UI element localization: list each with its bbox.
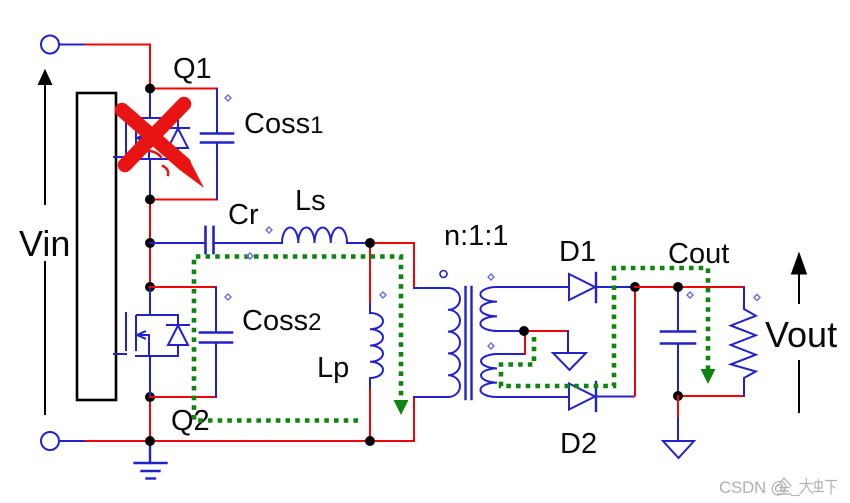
svg-text:Coss2: Coss2: [242, 305, 321, 337]
wire D1 node to Cout (red): [635, 286, 678, 288]
svg-text:D1: D1: [559, 236, 596, 268]
capacitor Cr: [206, 227, 214, 253]
svg-text:Coss1: Coss1: [244, 108, 323, 140]
transformer core: [466, 287, 472, 399]
svg-text:Q2: Q2: [171, 405, 210, 437]
current loop secondary (green dotted): [501, 268, 708, 386]
wire bottom-left blue stub: [59, 440, 86, 442]
wire Ls to node: [347, 242, 370, 244]
svg-text:D2: D2: [560, 428, 597, 460]
node (635,287): [630, 282, 640, 292]
node (150,441): [145, 436, 155, 446]
Vin arrow: [38, 70, 51, 414]
node (678,396): [673, 391, 683, 401]
resistor R load (Vout): [731, 287, 756, 396]
wire Coss1 bottom (red): [150, 199, 217, 201]
svg-text:Q1: Q1: [173, 53, 212, 85]
node (150,397): [145, 392, 155, 402]
node (370,441): [365, 436, 375, 446]
svg-text:Cr: Cr: [228, 199, 259, 231]
node (524,331): [519, 326, 529, 336]
transistor Q2 (MOSFET): [114, 287, 189, 397]
transformer phase dot primary: [440, 271, 447, 278]
wire D1 node down to D2 (red): [634, 287, 635, 397]
marker diamond Coss2: [225, 294, 231, 300]
terminal top-left: [41, 36, 59, 54]
capacitor Cout: [661, 287, 695, 396]
node (150,197): [145, 195, 155, 205]
transistor Q1 (MOSFET): [114, 89, 189, 200]
marker diamond sec1: [488, 274, 494, 280]
svg-text:Vin: Vin: [19, 223, 70, 264]
wire Lp red top: [369, 243, 371, 302]
wire Lp red bottom: [369, 390, 371, 441]
inductor Ls: [282, 227, 347, 243]
current loop primary (green dotted): [194, 257, 401, 421]
transformer secondary winding 2: [480, 354, 569, 397]
ground (input, bottom left): [135, 444, 167, 479]
wire Coss2 top (red): [150, 286, 216, 288]
node (150,243): [145, 238, 155, 248]
wire Cout to Vout bottom (red): [678, 395, 744, 397]
marker diamond Lp: [380, 292, 386, 298]
marker diamond sec2: [488, 343, 494, 349]
wire transformer primary bottom (red): [370, 397, 414, 441]
transformer secondary winding 1: [480, 287, 569, 331]
wire Cout to Vout top (red): [678, 286, 744, 288]
current loop secondary arrowhead: [701, 369, 716, 384]
wire node to transformer primary (red): [370, 243, 414, 288]
svg-text:Vout: Vout: [765, 314, 837, 355]
wire node to Cr: [150, 242, 205, 244]
ground (secondary center tap): [553, 331, 586, 370]
wire Coss1 top (red): [150, 88, 217, 90]
wire bottom rail: [86, 440, 370, 442]
svg-text:Ls: Ls: [295, 185, 326, 217]
wire rail Q2 source to bottom: [149, 397, 151, 441]
diode D2: [569, 382, 634, 411]
Vout arrow: [792, 253, 807, 412]
marker diamond on green line: [247, 253, 253, 259]
marker diamond Cr-Ls: [266, 227, 272, 233]
terminal bottom-left: [41, 432, 59, 450]
wire center tap (red): [524, 330, 568, 332]
transformer T1 primary winding: [414, 288, 460, 397]
wire top-left blue stub: [59, 44, 86, 46]
node (370,243): [365, 238, 375, 248]
capacitor Coss1: [201, 89, 233, 200]
diode D1: [569, 273, 635, 302]
wire center tap drop to sec2 (red): [524, 331, 526, 354]
Vin block rectangle: [77, 93, 116, 400]
svg-text:Cout: Cout: [668, 238, 729, 270]
node (678,287): [673, 282, 683, 292]
wire Cr to Ls: [215, 242, 283, 244]
wire top to Q1 drain rail: [86, 45, 150, 89]
current loop primary arrowhead: [394, 400, 409, 415]
svg-text:Lp: Lp: [317, 352, 349, 384]
node (150,90): [145, 84, 155, 94]
inductor Lp: [370, 243, 383, 390]
node (150,287): [145, 282, 155, 292]
wire rail mid (node Q1 source to Cr node): [149, 200, 151, 288]
ground (output): [663, 418, 694, 458]
marker diamond Vout: [754, 295, 760, 301]
marker diamond Coss1: [225, 95, 231, 101]
wire Coss2 bottom (red): [150, 396, 216, 398]
capacitor Coss2: [200, 287, 232, 397]
red X over Q1: [122, 104, 204, 188]
svg-text:n:1:1: n:1:1: [444, 220, 509, 252]
marker diamond Cout: [687, 292, 693, 298]
wire Cout node to output ground (red): [677, 396, 679, 418]
